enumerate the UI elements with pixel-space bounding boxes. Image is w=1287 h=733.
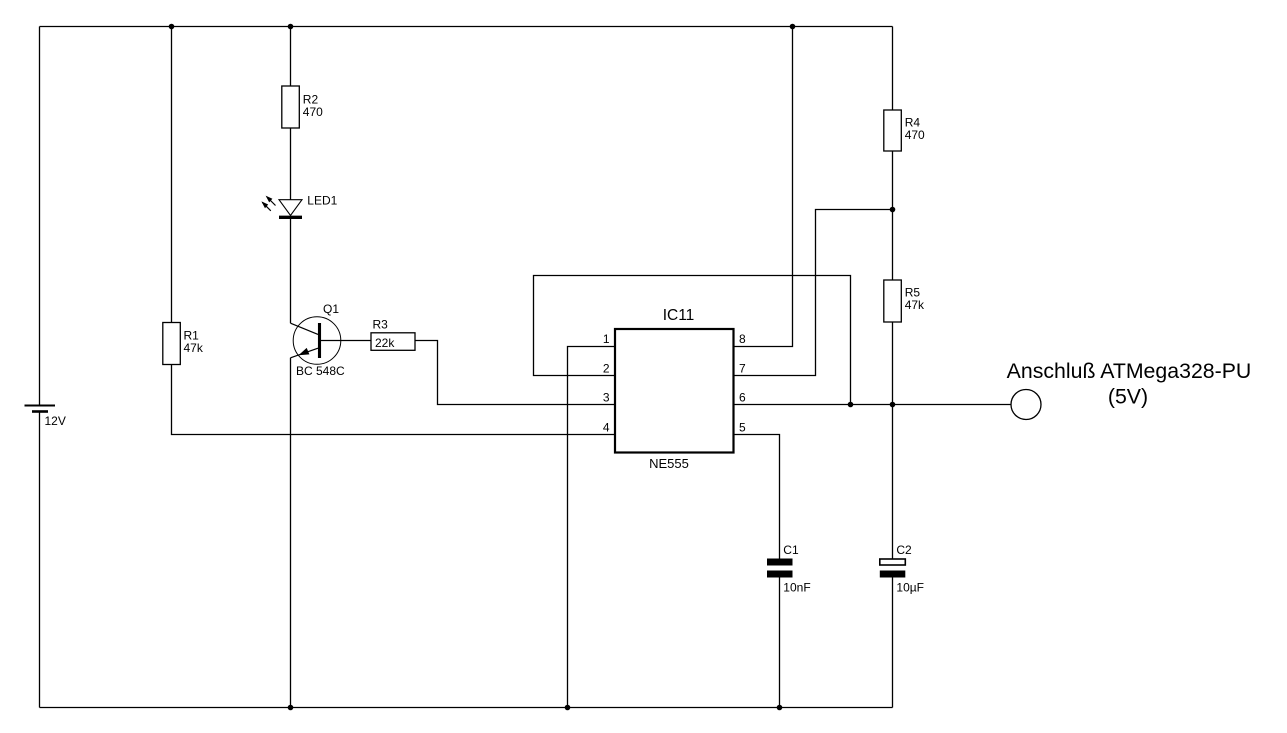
svg-text:R3: R3 — [373, 318, 389, 332]
svg-text:IC11: IC11 — [663, 307, 695, 324]
wire Q1 emitter down to ground rail — [290, 358, 292, 708]
resistor R4 — [884, 110, 902, 151]
wire R4 to R5 — [892, 151, 894, 280]
wire pin8 to top rail — [734, 27, 793, 347]
svg-text:BC 548C: BC 548C — [296, 364, 345, 378]
IC IC11 body — [615, 329, 734, 453]
resistor R5 — [884, 280, 902, 322]
svg-text:5: 5 — [739, 421, 746, 435]
wire R2 to LED1 anode — [290, 128, 292, 200]
wire R1 bottom to IC pin4 — [172, 365, 616, 435]
junction ground rail at C1 — [777, 705, 783, 711]
wire pin2 loop over IC to pin6 net — [534, 276, 851, 405]
wire pin7 to R4/R5 node — [734, 210, 893, 376]
wire Q1 base to R3 — [321, 340, 371, 342]
resistor R3 — [371, 333, 415, 351]
battery B1 12V — [25, 406, 56, 412]
svg-text:10µF: 10µF — [896, 581, 924, 595]
junction top rail at R2 — [288, 24, 294, 30]
wire left rail upper (top rail to battery +) — [39, 27, 41, 406]
svg-text:LED1: LED1 — [307, 194, 337, 208]
junction R5/C2 on pin6 line — [890, 402, 896, 408]
svg-text:3: 3 — [603, 391, 610, 405]
svg-text:Q1: Q1 — [323, 302, 339, 316]
svg-text:(5V): (5V) — [1108, 385, 1148, 409]
svg-text:10nF: 10nF — [783, 581, 810, 595]
svg-text:7: 7 — [739, 362, 746, 376]
wire bottom ground rail — [40, 707, 893, 709]
wire pin1 to ground rail — [568, 347, 616, 708]
transistor Q1 BC548C — [291, 317, 341, 365]
wire R1 top (top rail to R1) — [171, 27, 173, 323]
junction pin7 at R4/R5 node — [890, 207, 896, 213]
wire R5 down across pin6 line to C2 — [892, 322, 894, 559]
svg-text:2: 2 — [603, 362, 610, 376]
svg-text:C1: C1 — [783, 543, 799, 557]
wire LED1 cathode to Q1 collector — [290, 217, 292, 323]
wire C2 to ground rail — [892, 578, 894, 708]
svg-text:4: 4 — [603, 421, 610, 435]
wire left rail lower (battery - to ground rail) — [39, 412, 41, 708]
wire pin6 output to terminal pad — [734, 404, 1012, 406]
capacitor C1 — [767, 559, 793, 578]
svg-text:22k: 22k — [375, 336, 395, 350]
svg-text:12V: 12V — [45, 414, 66, 428]
LED LED1 — [261, 196, 302, 218]
svg-text:8: 8 — [739, 332, 746, 346]
wire C1 to ground rail — [779, 578, 781, 708]
wire pin5 to C1 — [734, 435, 780, 559]
junction top rail at R1 — [169, 24, 175, 30]
svg-text:C2: C2 — [896, 543, 912, 557]
resistor R2 — [282, 86, 300, 128]
resistor R1 — [163, 323, 181, 365]
capacitor C2 polarized — [880, 559, 906, 578]
junction ground rail at Q1 emitter — [288, 705, 294, 711]
wire right rail top (top rail to R4) — [892, 27, 894, 111]
wire R2 top (top rail to R2) — [290, 27, 292, 87]
svg-text:1: 1 — [603, 332, 610, 346]
junction ground rail at pin1 — [565, 705, 571, 711]
junction top rail at pin8 drop — [790, 24, 796, 30]
svg-text:6: 6 — [739, 391, 746, 405]
wire top +12V rail — [40, 26, 893, 28]
junction pin2 loop on pin6 line — [848, 402, 854, 408]
wire R3 to IC pin3 — [415, 341, 615, 405]
svg-text:Anschluß ATMega328-PU: Anschluß ATMega328-PU — [1007, 359, 1252, 383]
terminal pad circle (5V connection) — [1011, 390, 1041, 420]
svg-text:NE555: NE555 — [649, 456, 689, 471]
